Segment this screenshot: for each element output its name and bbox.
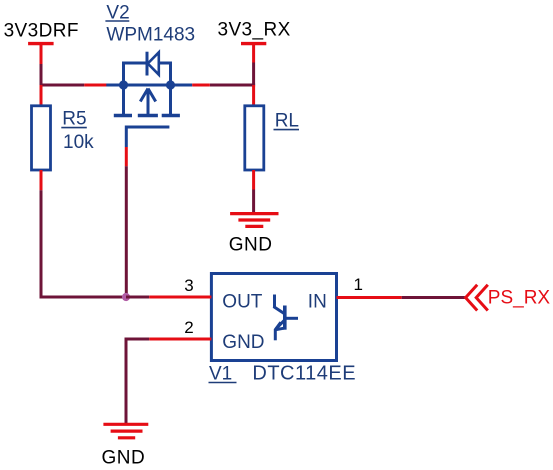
svg-text:R5: R5	[62, 109, 86, 130]
svg-text:V2: V2	[106, 2, 129, 23]
power bar 3V3DRF	[28, 42, 53, 45]
svg-text:V1: V1	[209, 363, 232, 384]
junction dot left	[119, 80, 128, 89]
body diode cathode bar	[146, 52, 149, 76]
label R5	[61, 109, 87, 130]
svg-text:GND: GND	[229, 235, 273, 256]
node A junction dot	[122, 293, 130, 301]
svg-text:3V3_RX: 3V3_RX	[218, 19, 291, 40]
port PS_RX chevrons	[466, 285, 488, 311]
ground GND right	[230, 214, 278, 227]
gate bar	[126, 126, 169, 129]
source-drain rail	[106, 84, 192, 87]
svg-text:RL: RL	[275, 111, 299, 132]
label RL	[274, 111, 300, 132]
wire node A to OUT pin 3	[126, 296, 211, 299]
wire 3V3_RX rail to MOSFET drain	[192, 45, 255, 85]
body diode branch left	[122, 62, 125, 86]
svg-text:OUT: OUT	[222, 292, 262, 313]
svg-text:3V3DRF: 3V3DRF	[4, 21, 79, 42]
body diode triangle	[148, 52, 159, 74]
svg-text:10k: 10k	[63, 132, 94, 153]
svg-text:DTC114EE: DTC114EE	[252, 362, 356, 384]
wire gate to node A	[125, 147, 128, 297]
wire IN pin 1 to port	[337, 296, 465, 299]
channel bar left	[114, 114, 132, 117]
wire RL bottom to ground	[252, 170, 255, 214]
svg-text:PS_RX: PS_RX	[488, 288, 551, 309]
svg-text:WPM1483: WPM1483	[106, 25, 195, 46]
transistor V1 DTC114EE box	[211, 274, 336, 361]
svg-text:1: 1	[354, 275, 363, 294]
wire node to R5 top	[40, 85, 43, 107]
label V1	[209, 363, 237, 384]
gate lead	[125, 126, 128, 148]
junction dot right	[166, 80, 175, 89]
channel lead right	[169, 85, 172, 116]
channel lead left	[122, 85, 125, 116]
substrate arrow	[147, 89, 150, 116]
resistor R5	[32, 106, 51, 170]
svg-text:3: 3	[184, 276, 193, 295]
channel bar middle	[138, 114, 158, 117]
resistor RL	[245, 106, 264, 170]
ground GND left	[103, 424, 148, 438]
transistor V2 PMOS symbol	[106, 52, 192, 147]
body diode top wire	[122, 62, 147, 65]
channel bar right	[162, 114, 180, 117]
label V2	[105, 2, 129, 23]
svg-text:IN: IN	[308, 292, 327, 313]
svg-text:2: 2	[184, 318, 193, 337]
wire R5 bottom to node A	[40, 170, 127, 299]
svg-text:GND: GND	[102, 447, 146, 468]
body diode branch right	[169, 62, 172, 86]
wire 3V3_RX node to RL top	[252, 85, 255, 107]
wire GND pin 2 to ground	[125, 338, 212, 425]
wire 3V3DRF rail to node	[40, 45, 108, 87]
power bar 3V3_RX	[241, 42, 266, 45]
transistor icon inside V1	[274, 295, 299, 341]
svg-text:GND: GND	[222, 332, 264, 353]
